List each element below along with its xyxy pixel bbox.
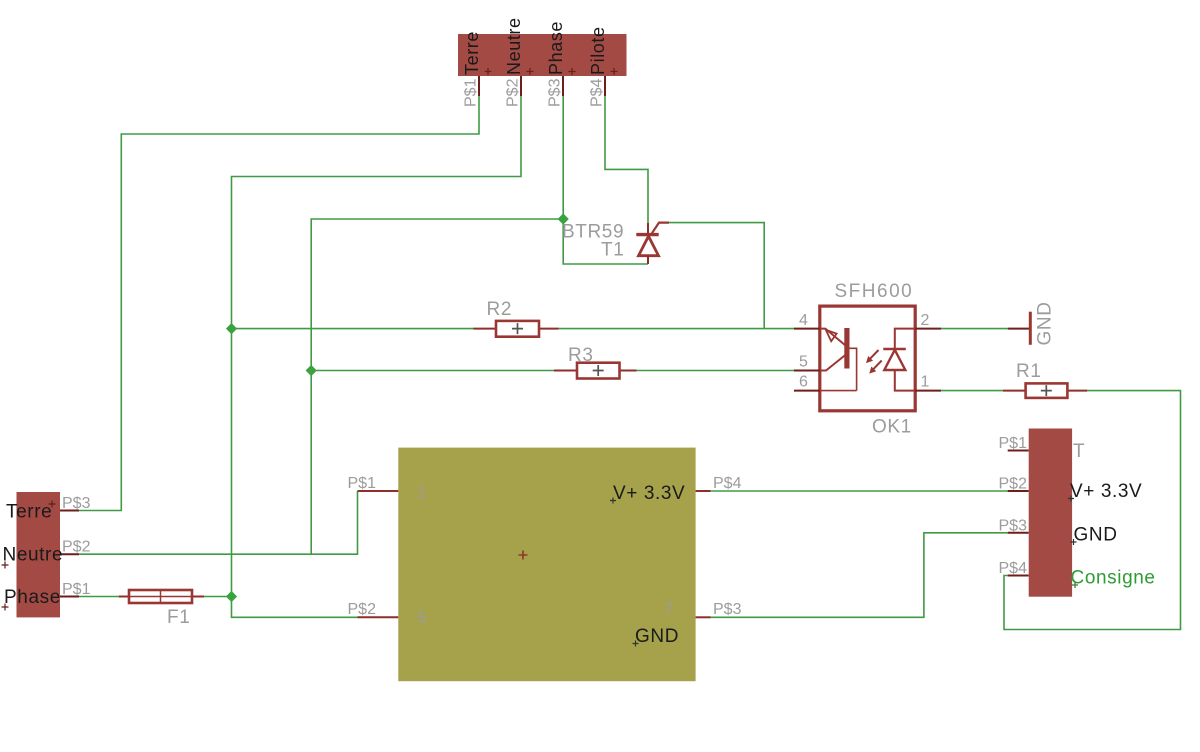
- pin P$4 top connector stub: [604, 76, 606, 96]
- OK1 pin 6 stub: [794, 390, 820, 392]
- left connector pin P$2 stub: [60, 553, 79, 555]
- svg-text:P$3: P$3: [999, 518, 1028, 535]
- connector right (consigne) body: [1029, 429, 1072, 597]
- svg-text:Phase: Phase: [4, 587, 61, 608]
- left pin name Phase: [4, 587, 61, 608]
- left pin name Neutre: [3, 545, 64, 566]
- module origin cross: [519, 551, 528, 560]
- optocoupler OK1 SFH600: [794, 281, 941, 438]
- LED inside OK1: [895, 329, 915, 349]
- svg-text:SFH600: SFH600: [835, 281, 914, 302]
- ground symbol GND (right of OK1): [1008, 301, 1056, 345]
- junction node at R2 branch: [226, 323, 237, 334]
- origin cross right V+: [1068, 496, 1074, 502]
- OK1 pin 4 stub: [794, 328, 820, 330]
- svg-text:GND: GND: [635, 626, 679, 647]
- svg-text:P$4: P$4: [713, 475, 742, 492]
- OK1 pin 2 stub: [915, 328, 941, 330]
- svg-text:GND: GND: [1074, 525, 1118, 546]
- wire R3 to OK1 pin 5: [637, 370, 795, 372]
- wire T1 gate to R2 row: [669, 223, 764, 329]
- left pad label P$1: [62, 581, 91, 598]
- power module (olive block): [348, 448, 742, 682]
- svg-text:1: 1: [921, 374, 930, 391]
- pin name Terre (top, rotated): [462, 31, 482, 75]
- svg-text:7: 7: [665, 601, 674, 618]
- right pad label P$4: [999, 560, 1028, 577]
- svg-text:P$1: P$1: [463, 78, 480, 107]
- module pin 1 stub: [358, 490, 399, 492]
- wire net Neutre-top (top P$2 down-left and long vertical): [232, 96, 522, 597]
- svg-text:T1: T1: [601, 240, 624, 261]
- svg-text:R3: R3: [568, 345, 594, 366]
- wire left connector P$1 Phase to fuse: [79, 596, 119, 598]
- svg-text:2: 2: [921, 312, 930, 329]
- module pin 4 stub: [696, 490, 711, 492]
- wire branch to R3: [311, 370, 554, 372]
- wire OK1 pin 2 to GND: [941, 328, 1008, 330]
- module origin cross V+: [610, 498, 616, 504]
- pad label P$4 (top, rotated): [589, 78, 606, 107]
- wire R1 to right connector P$4 (loop): [1004, 391, 1181, 630]
- resistor R3: [554, 345, 637, 379]
- svg-text:P$2: P$2: [999, 476, 1028, 493]
- svg-text:T: T: [1073, 441, 1085, 462]
- pin P$1 top connector stub: [478, 76, 480, 96]
- module pin 5 stub: [358, 616, 399, 618]
- left pad label P$3: [62, 495, 91, 512]
- phototransistor base connection to pin 6: [820, 348, 857, 390]
- svg-text:5: 5: [799, 354, 808, 371]
- right connector pin P$1 stub: [1008, 450, 1029, 452]
- origin cross Terre: [49, 501, 56, 508]
- origin cross right GND: [1071, 539, 1077, 545]
- svg-text:P$2: P$2: [505, 78, 522, 107]
- svg-text:P$1: P$1: [999, 435, 1028, 452]
- svg-text:OK1: OK1: [872, 417, 912, 438]
- svg-text:V+ 3.3V: V+ 3.3V: [1070, 481, 1142, 502]
- wire net Neutre-left (left P$2 to module pin 1): [79, 491, 358, 554]
- svg-text:5: 5: [418, 610, 427, 627]
- left connector pin P$1 stub: [60, 596, 79, 598]
- phototransistor base bar: [844, 328, 849, 369]
- left pin name Terre: [6, 502, 52, 523]
- wire junction vertical to module pin 5: [232, 597, 358, 618]
- pin P$3 top connector stub: [562, 76, 564, 96]
- wire net V+ 3.3V (module pin 4 to right connector P$2): [711, 490, 1008, 492]
- fuse F1: [119, 590, 204, 628]
- junction node at fuse output: [226, 591, 237, 602]
- right connector pin P$4 stub: [1008, 575, 1029, 577]
- svg-text:Phase: Phase: [546, 21, 566, 75]
- right pin name V+ 3.3V: [1070, 481, 1142, 502]
- pin name Phase (top, rotated): [546, 21, 566, 75]
- resistor R2: [474, 299, 559, 337]
- pin name Neutre (top, rotated): [504, 17, 524, 75]
- right connector pin P$3 stub: [1008, 532, 1029, 534]
- OK1 pin 5 stub: [794, 370, 820, 372]
- svg-text:4: 4: [799, 312, 808, 329]
- svg-text:1: 1: [418, 484, 427, 501]
- svg-text:P$3: P$3: [547, 78, 564, 107]
- svg-text:Consigne: Consigne: [1071, 568, 1156, 589]
- svg-text:6: 6: [799, 374, 808, 391]
- OK1 box: [820, 306, 915, 411]
- connector top (secteur output) body: [458, 34, 627, 76]
- connector left (secteur input) body: [17, 492, 61, 617]
- svg-text:P$3: P$3: [62, 495, 91, 512]
- wire net Terre (top P$1 to left connector P$3): [79, 96, 479, 511]
- origin cross Neutre: [2, 562, 9, 569]
- light arrow 1: [869, 350, 879, 360]
- svg-text:Neutre: Neutre: [3, 545, 64, 566]
- svg-text:P$4: P$4: [999, 560, 1028, 577]
- svg-text:F1: F1: [167, 607, 190, 628]
- svg-text:R2: R2: [487, 299, 513, 320]
- resistor R1: [1003, 361, 1088, 398]
- wire branch left from T1 node down to Neutre row: [311, 219, 563, 554]
- origin cross right Consigne: [1072, 582, 1078, 588]
- right pin name T: [1073, 441, 1085, 462]
- module pin 7 stub: [696, 616, 711, 618]
- svg-text:GND: GND: [1035, 301, 1056, 345]
- wire net Phase-top (top P$3 down to T1): [563, 96, 648, 264]
- right pad label P$3: [999, 518, 1028, 535]
- pin P$2 top connector stub: [520, 76, 522, 96]
- origin crosses top connector: [485, 68, 618, 75]
- junction node at R3 branch: [306, 365, 317, 376]
- phototransistor emitter diagonal: [820, 353, 848, 371]
- OK1 pin 1 stub: [915, 390, 941, 392]
- svg-text:P$2: P$2: [348, 601, 377, 618]
- module origin cross GND: [633, 641, 639, 647]
- svg-text:Neutre: Neutre: [504, 17, 524, 75]
- phototransistor collector diagonal with arrow: [820, 329, 848, 348]
- origin cross Phase: [2, 604, 9, 611]
- svg-text:P$4: P$4: [589, 78, 606, 107]
- light arrow 2: [872, 361, 882, 371]
- right pin name GND: [1074, 525, 1118, 546]
- svg-text:Terre: Terre: [6, 502, 52, 523]
- svg-text:R1: R1: [1016, 361, 1042, 382]
- wire branch to R2: [232, 328, 474, 330]
- svg-text:Terre: Terre: [462, 31, 482, 75]
- pad label P$2 (top, rotated): [505, 78, 522, 107]
- svg-text:V+ 3.3V: V+ 3.3V: [613, 483, 685, 504]
- wire R2 to OK1 pin 4: [559, 328, 795, 330]
- right connector pin P$2 stub: [1008, 490, 1029, 492]
- pad label P$3 (top, rotated): [547, 78, 564, 107]
- svg-text:Pilote: Pilote: [588, 26, 608, 75]
- left pad label P$2: [62, 539, 91, 556]
- right pin name Consigne: [1071, 568, 1156, 589]
- junction node at T1 (Phase net): [558, 213, 569, 224]
- svg-text:P$1: P$1: [62, 581, 91, 598]
- right pad label P$1: [999, 435, 1028, 452]
- wire net Pilote (top P$4 to T1 cathode): [605, 96, 648, 223]
- svg-text:P$2: P$2: [62, 539, 91, 556]
- wire net GND (module pin 7 to right connector P$3): [711, 533, 1008, 618]
- pin name Pilote (top, rotated): [588, 26, 608, 75]
- wire fuse to junction: [204, 596, 232, 598]
- right pad label P$2: [999, 476, 1028, 493]
- svg-text:P$3: P$3: [713, 601, 742, 618]
- svg-text:P$1: P$1: [348, 475, 377, 492]
- triac T1 BTR59: [562, 222, 669, 265]
- left connector pin P$3 stub: [60, 510, 79, 512]
- wire OK1 pin 1 to R1: [941, 390, 1003, 392]
- pad label P$1 (top, rotated): [463, 78, 480, 107]
